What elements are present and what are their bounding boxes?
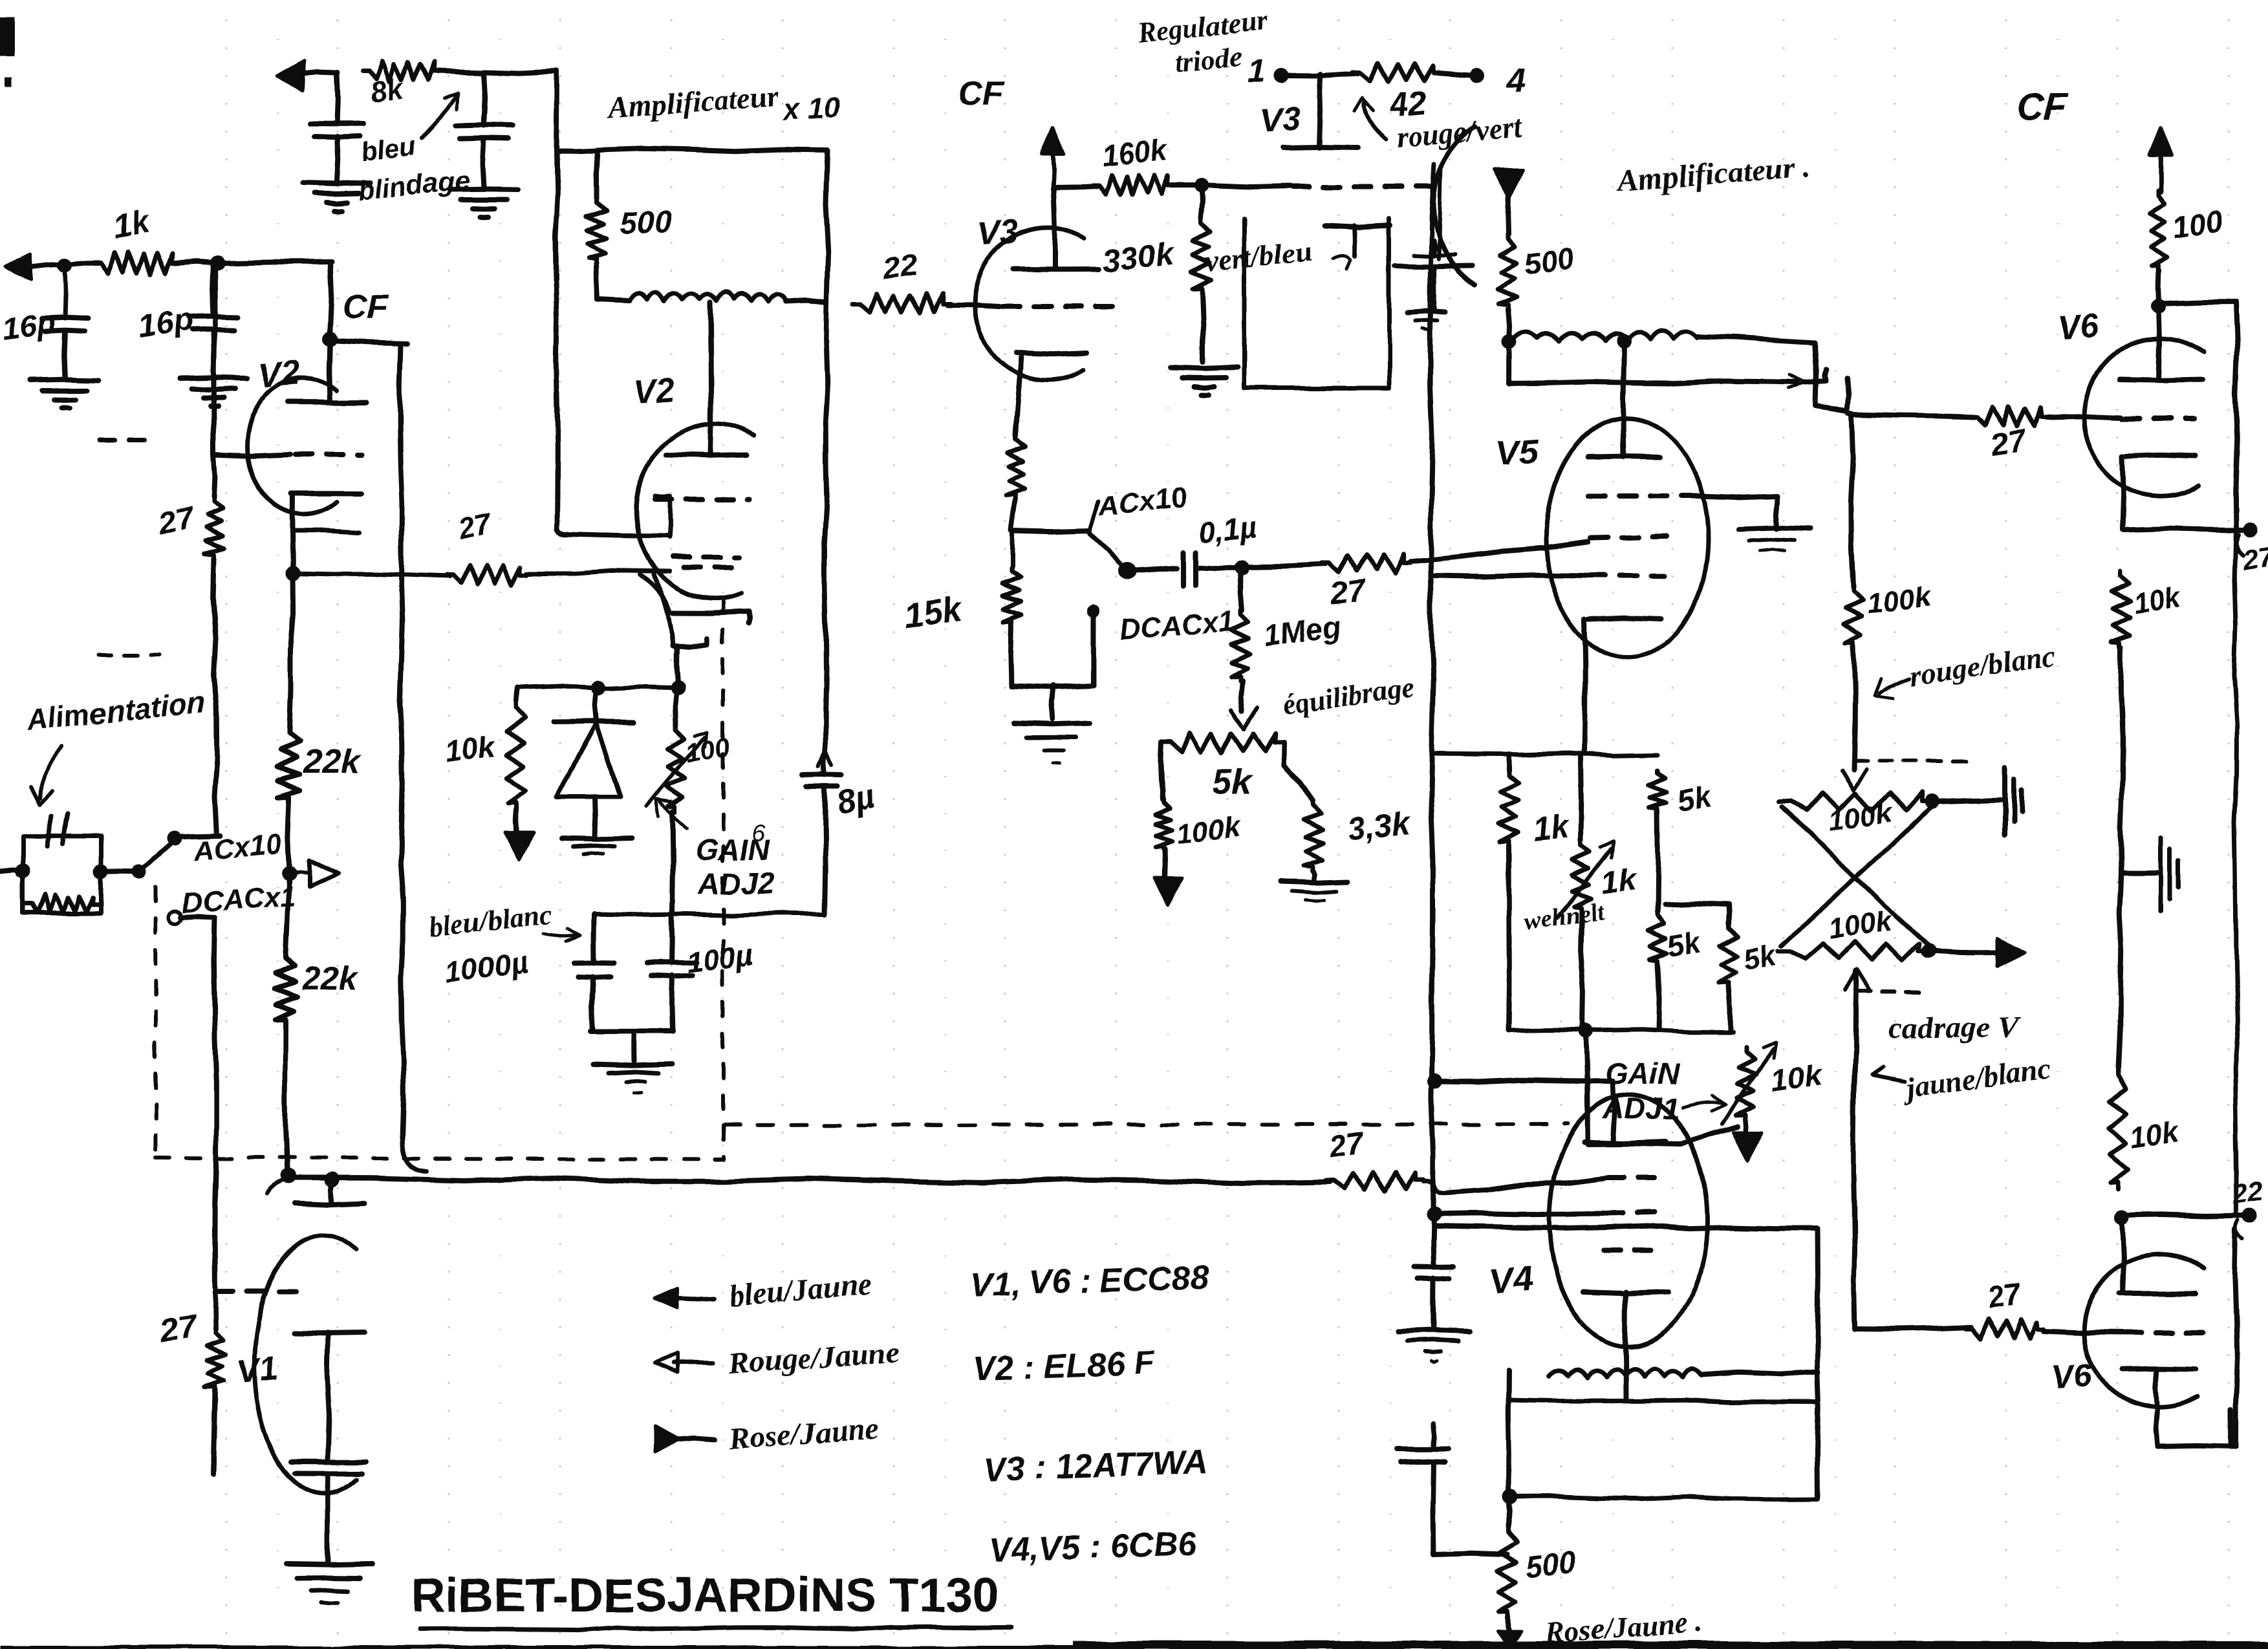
wire CF node to corner (331, 340, 407, 343)
center supply bus (vertical) (1430, 165, 1441, 1214)
resistor 27 (V1 grid column) (205, 1291, 225, 1474)
tube V4 plate (1584, 1142, 1666, 1143)
label 16p (input cap) (0, 305, 58, 347)
wire output down (V6b cathode return) (2235, 1229, 2238, 1446)
label CF (V2a cathode follower) (343, 288, 389, 326)
capacitor (V4 left upper) (1414, 1216, 1453, 1328)
ground stub (mid right) (2121, 838, 2178, 911)
svg-text:V3 : 12AT7WA: V3 : 12AT7WA (983, 1443, 1208, 1489)
wire top to pentode box (484, 71, 598, 151)
cap bottom bar + ground (590, 1031, 673, 1094)
resistor 100k (equilibrage left) (1155, 800, 1172, 849)
node 1Meg (1236, 560, 1250, 574)
tube V3a plate (1013, 189, 1099, 269)
wire coil to corner (1697, 336, 1815, 342)
tube V1 plate (294, 1173, 365, 1204)
tube V6a plate (2120, 306, 2203, 380)
dashed link (cadrage) (1855, 761, 1967, 992)
label 5k b (1665, 924, 1705, 964)
resistor 500 (box left side) (587, 199, 607, 263)
network top rail (1434, 753, 1658, 757)
svg-text:1: 1 (1248, 54, 1266, 89)
tube V6b plate lead (2119, 1220, 2196, 1294)
bottom rail (V4) (1510, 1497, 1818, 1500)
svg-text:V4: V4 (1489, 1260, 1534, 1301)
potentiometer 10k (GAIN ADJ1) (1722, 1042, 1776, 1124)
label 500 (V4) (1524, 1544, 1578, 1584)
tube V2 cathode hook upper (640, 574, 750, 623)
capacitor 8u column (803, 302, 841, 914)
wire J1 to R 1k (65, 264, 98, 265)
wire V2a cathode column down (22k column) (289, 573, 294, 729)
tube V5 grid2 dashes (1588, 493, 1699, 499)
bottom bus (long horizontal) (288, 1178, 1330, 1183)
wire attenuator to switch pivot (101, 865, 146, 879)
wire pot left to 100k (1160, 742, 1162, 800)
wire box-left vertical down (556, 151, 669, 536)
ground (3.3k) (1280, 870, 1348, 901)
potentiometer 5k (equilibrage) (1161, 733, 1284, 753)
tube V6b envelope (2084, 1255, 2204, 1407)
svg-text:100: 100 (2170, 204, 2225, 244)
capacitor C 16p (input) (41, 266, 88, 379)
scan mark top-left (0, 17, 14, 87)
svg-text:V3: V3 (1259, 100, 1303, 140)
arrow down (10k to -) (505, 808, 534, 860)
wire grid2 to ground (1699, 496, 1809, 551)
wire V4 cathode rail (1509, 1400, 1818, 1403)
label 0,1u (1197, 510, 1258, 550)
node V4 left (1503, 1490, 1517, 1504)
svg-text:CF: CF (343, 288, 389, 326)
terminal 1 (1248, 54, 1288, 89)
label DCACx1 (left switch) (180, 880, 296, 920)
label 1k (1531, 808, 1571, 848)
capacitor C 16p (after 1k) (189, 263, 238, 377)
resistor 160k (1092, 175, 1174, 195)
tube V2 grid1 dashes (654, 497, 750, 502)
svg-text:V6: V6 (2049, 1357, 2094, 1397)
svg-text:V6: V6 (2056, 307, 2101, 347)
label 27 (upper left) (155, 501, 197, 541)
tube V5 cathode (1584, 618, 1661, 753)
tube V5 envelope (1546, 418, 1708, 658)
label vert/bleu (1204, 234, 1350, 278)
label cadrage V (1888, 1011, 2021, 1045)
label 100u (684, 937, 755, 980)
wire V4 feed (y=1672) (1434, 1080, 1615, 1142)
wire jog to V6a grid line (1816, 378, 1852, 414)
svg-text:6: 6 (752, 819, 766, 846)
ground (V4 left) (1398, 1330, 1470, 1362)
wire to V6b grid from cadrage (1855, 1327, 1971, 1330)
wire down to CF plate node (330, 262, 331, 338)
wire V4 right column (1817, 1229, 1819, 1497)
label ACx10 (mid switch) (1096, 482, 1189, 523)
network bottom rail (1509, 1029, 1733, 1032)
scan mark bottom edge (0, 1641, 2268, 1649)
wire 42 to terminal 4 (1438, 68, 1484, 82)
pentode anode-load box (500) (596, 149, 828, 302)
capacitor 100u (647, 914, 697, 1031)
svg-text:27: 27 (157, 1308, 200, 1349)
label 100k (cadrage bottom) (1827, 905, 1895, 945)
arrow up (V6a B+) (2150, 128, 2172, 193)
label 160k (1100, 133, 1171, 173)
resistor 3.3k (1303, 800, 1323, 870)
label V4 (1489, 1260, 1534, 1301)
label V2 (pentode) (632, 371, 676, 412)
dashed box bottom (156, 1158, 723, 1159)
svg-text:10k: 10k (1768, 1057, 1826, 1099)
label 100k (cadrage top) (1827, 797, 1895, 837)
label 500 (V5) (1522, 241, 1577, 281)
node D (attenuator tap) (282, 866, 296, 880)
arrow down (ADJ1 to -) (1734, 1119, 1762, 1159)
arrow ground (rose/jaune) (1498, 1617, 1521, 1648)
resistor 27 (V6a grid) (1853, 407, 2047, 427)
svg-text:V4,V5 : 6CB6: V4,V5 : 6CB6 (988, 1525, 1198, 1569)
label bleu/blanc (427, 898, 581, 943)
svg-text:27: 27 (1987, 424, 2029, 463)
arrow up (cadrage wiper) (1844, 970, 1869, 1329)
resistor 42 (1353, 63, 1441, 82)
node (8k left cap) (337, 72, 338, 123)
node V6b plate (2115, 1211, 2130, 1225)
label V2 (cathode follower) (256, 353, 302, 396)
label 27 (output top) (2240, 541, 2268, 575)
label 1Meg (1262, 609, 1343, 653)
dashed stub (alim) (98, 653, 159, 657)
dashes (left of V2a grid) (99, 438, 150, 442)
svg-text:CF: CF (2016, 86, 2068, 128)
tube V1 cathode (294, 1333, 365, 1460)
wire + arrow right (cadrage out) (1928, 938, 2024, 966)
wire cathode to bias rail (676, 648, 678, 687)
resistor 5k b (1648, 912, 1667, 964)
tube V1 envelope (254, 1235, 356, 1494)
svg-text:1k: 1k (1531, 808, 1571, 848)
label 27 (bus) (1326, 1126, 1368, 1165)
ground (8k left) (303, 183, 371, 211)
arrow down (1Meg to pot wiper) (1231, 708, 1257, 729)
node bus-left (266, 1169, 296, 1193)
coil resistor (V5 plate) (1513, 331, 1697, 341)
resistor 1Meg (1231, 572, 1250, 711)
label 16p (2nd) (136, 301, 196, 344)
node network out (1579, 1024, 1593, 1038)
contact node (mid switch) (1119, 561, 1136, 578)
svg-text:8µ: 8µ (833, 778, 878, 823)
svg-text:22: 22 (880, 248, 920, 286)
resistor 500 (V5 plate) (1498, 234, 1517, 309)
wire node to output 2 bottom (2122, 1215, 2245, 1216)
label V6 (bottom) (2049, 1357, 2094, 1397)
wire V1 cathode cap down (325, 1473, 330, 1562)
node cadrage bottom right (1921, 943, 1936, 958)
arrow (42 pointer) (1354, 98, 1385, 140)
resistor 27 (to V5) (1322, 554, 1410, 573)
tube V2 plate (666, 302, 747, 455)
label V2 : EL86F (972, 1344, 1155, 1388)
node cadrage top right (1925, 795, 1939, 809)
label V5 (1495, 431, 1541, 473)
wire 22 to V3a grid (947, 305, 999, 307)
label ACx10 (left switch) (191, 828, 283, 868)
wire 27 to V5 grid (1410, 542, 1588, 561)
label Rose/Jaune (727, 1411, 880, 1456)
wire terminal1 to 42 (1281, 74, 1358, 76)
svg-text:160k: 160k (1100, 133, 1171, 173)
svg-text:V2 : EL86 F: V2 : EL86 F (972, 1344, 1155, 1388)
node coil mid (1617, 334, 1631, 348)
label Regulateur (1135, 4, 1270, 49)
node V4 grid2 (1427, 1207, 1441, 1222)
wire V4 bottom corner (1434, 1553, 1507, 1555)
wire 500 to node (1508, 309, 1509, 341)
arrow (blindage pointer) (422, 93, 459, 138)
label 100 (pot) (682, 731, 732, 768)
resistor 15k (box left) (1002, 568, 1022, 623)
tube V2a envelope (247, 378, 336, 514)
label Amplificateur x 10 (605, 80, 842, 127)
label 100 (V6a) (2170, 204, 2225, 244)
arrow (ADJ1 pointer) (1681, 1095, 1725, 1111)
node V4 feed (1427, 1074, 1442, 1088)
label 100k (equilibrage) (1175, 810, 1244, 850)
tube V2 grid bracket (654, 497, 669, 537)
wire R1k to node J2 (175, 262, 217, 263)
label triode (1173, 40, 1244, 79)
arrow D (open, right) (289, 860, 338, 887)
label 5k a (1674, 779, 1714, 818)
wire cadrage top to cap (1932, 800, 2003, 802)
wire node right + down (2159, 301, 2238, 529)
wire 5k a to 5k b (1655, 812, 1661, 912)
svg-text:5k: 5k (1213, 763, 1253, 802)
ground (under 2nd 16p) (180, 378, 247, 407)
node V5 plate supply (1502, 335, 1516, 349)
arrow down (100k to -) (1155, 849, 1182, 905)
wire grid2 node (1434, 1212, 1662, 1214)
label Rose/Jaune (V4) (1543, 1605, 1704, 1649)
label V6 (top) (2056, 307, 2101, 347)
wire to 27 (V5 grid) (1243, 564, 1326, 566)
legend arrow rouge/jaune (655, 1353, 713, 1373)
legend arrow rose/jaune (655, 1426, 715, 1452)
diode (thermistor) (554, 687, 634, 797)
tube V4 cathode (1583, 1292, 1669, 1398)
wire 22k lower to bus (286, 1024, 288, 1175)
node attenuator out (94, 865, 108, 879)
capacitor 1000u (575, 914, 614, 1031)
label 10k (V6b) (2128, 1116, 2181, 1154)
ground (diode) (561, 837, 632, 854)
capacitor (V4 left lower) (1397, 1423, 1449, 1555)
label jaune/blanc (1872, 1051, 2053, 1105)
wire network to gain pot (1586, 1032, 1738, 1145)
tube V5 grid3 line (1434, 575, 1664, 576)
tube V3a grid dashes (1002, 304, 1127, 309)
wire 27 to grid (2047, 416, 2121, 418)
resistor 27 (bus) (1326, 1172, 1423, 1190)
tube V4 grid3 dashes (1604, 1247, 1662, 1253)
connector to 5k c (1665, 903, 1729, 905)
node output 2 (bottom) (2236, 1209, 2258, 1239)
wire hook from V2a plate line down to bus (400, 345, 427, 1172)
node V6a plate (2152, 299, 2166, 313)
wire V1 grid dashes (217, 1289, 309, 1294)
tube V6b cathode bracket (2156, 1410, 2236, 1446)
wire cap to ground (337, 136, 338, 181)
capacitor (8k right) (455, 72, 512, 188)
svg-text:V2: V2 (256, 353, 302, 396)
decoupling rail (y=1413) (594, 913, 825, 915)
capacitor (V3b cathode) (1395, 241, 1472, 310)
terminal arrow (top-left, B+) (277, 61, 338, 91)
wire 8k to cap2 (437, 71, 485, 72)
label V4,V5 : 6CB6 (988, 1525, 1198, 1569)
tube V6b cathode (2122, 1368, 2196, 1410)
wire 10k column down (2119, 873, 2121, 1067)
label GAIN ADJ1 (1602, 1057, 1680, 1125)
ground (under switch box) (1014, 686, 1090, 763)
svg-text:3,3k: 3,3k (1345, 805, 1413, 848)
arrow (alimentation pointer) (31, 747, 61, 805)
capacitor 0.1u (1183, 552, 1196, 586)
label bleu (blindage) (359, 129, 418, 167)
svg-text:500: 500 (1524, 1544, 1578, 1584)
svg-text:27: 27 (1985, 1276, 2024, 1314)
wire left column (V4) (1508, 1371, 1509, 1497)
tube V5 grid1 dashes (1591, 536, 1667, 538)
label blindage (357, 164, 471, 206)
resistor 1k (94, 252, 178, 275)
tube V2 cathode hook lower (654, 574, 707, 647)
label CF (V3 stage) (958, 75, 1004, 113)
label 42 (1387, 83, 1429, 124)
label V3 : 12AT7WA (983, 1443, 1208, 1489)
box (V3b regulator outline) (1244, 219, 1389, 388)
wire DC contact down (to V1 grid column) (214, 918, 217, 1288)
svg-text:500: 500 (620, 206, 671, 240)
tube V3b envelope (1434, 127, 1475, 285)
wire 5k b down (1658, 964, 1659, 1030)
wire V6b grid (2044, 1331, 2204, 1333)
wire pot right to 3.3k (1284, 742, 1313, 800)
tube V6a grid dashes (2122, 416, 2194, 422)
label 10k (V6a) (2131, 581, 2184, 620)
wire 22k to node D (288, 802, 289, 872)
tube V4 envelope (1550, 1095, 1707, 1347)
label 27 (lower left) (157, 1308, 200, 1349)
resistor (V3a cathode) (1006, 435, 1026, 530)
label GAIN ADJ2 (695, 819, 775, 900)
svg-text:4: 4 (1506, 62, 1526, 100)
node CF plate (323, 332, 337, 346)
resistor 22k (lower) (275, 874, 297, 1024)
tube V3a cathode (1015, 352, 1088, 435)
label bleu/Jaune (727, 1267, 872, 1313)
label Amplificateur (right) (1614, 150, 1811, 198)
resistor 8k (362, 61, 440, 82)
contact DCACx1 (169, 911, 215, 924)
tube V3b cathode (1326, 225, 1390, 256)
capacitor (V1 cathode) (290, 1461, 365, 1473)
label 15k (901, 590, 966, 636)
svg-text:16p: 16p (136, 301, 196, 344)
ground (V3b cathode) (1407, 311, 1445, 330)
svg-text:ADJ2: ADJ2 (698, 867, 775, 900)
tube V5 plate (1588, 343, 1659, 457)
arrow (ADJ2 pointer) (656, 799, 687, 828)
svg-text:10k: 10k (442, 729, 498, 770)
node V2a cathode out (286, 566, 300, 580)
label V1,V6 : ECC88 (969, 1258, 1209, 1304)
svg-text:15k: 15k (901, 590, 966, 636)
label 8k (367, 70, 407, 110)
label 1k (pot) (1600, 863, 1639, 901)
svg-text:V2: V2 (632, 371, 676, 412)
svg-text:V1: V1 (235, 1350, 279, 1392)
resistor 330k (1191, 186, 1211, 362)
svg-text:CF: CF (958, 75, 1004, 113)
capacitor (8k left) (310, 123, 364, 136)
dashed box right (721, 598, 725, 1159)
svg-text:V5: V5 (1495, 431, 1541, 473)
svg-text:22k: 22k (303, 743, 362, 781)
ground (8k right) (450, 189, 517, 217)
svg-text:x 10: x 10 (780, 89, 842, 127)
label 10k (ADJ1) (1768, 1057, 1826, 1099)
label Alimentation (24, 685, 207, 737)
svg-text:cadrage V: cadrage V (1888, 1011, 2021, 1045)
resistor 100k (rouge/blanc column) (1844, 414, 1864, 770)
svg-text:330k: 330k (1100, 235, 1177, 279)
wire contact to 0.1u cap (1135, 568, 1177, 569)
tube V3b grid dashes (1292, 184, 1435, 189)
node 330k top (1171, 178, 1290, 193)
label rouge/vert (1394, 110, 1523, 154)
svg-text:GAiN: GAiN (1605, 1057, 1680, 1090)
label 3,3k (1345, 805, 1413, 848)
resistor 5k a (1648, 771, 1667, 812)
wire cathode-rail with 27 (293, 506, 670, 585)
terminal arrow down (B+ V5) (1494, 169, 1524, 234)
svg-text:1k: 1k (1600, 863, 1639, 901)
attenuator box (cap + resistor) (23, 814, 101, 913)
bus to V4 grid (1447, 1178, 1604, 1193)
output wire (V6a) (2123, 528, 2247, 530)
svg-text:0,1µ: 0,1µ (1197, 510, 1258, 550)
resistor 5k c (1719, 905, 1738, 1031)
label 1000u (442, 944, 530, 989)
arrow (rouge/blanc pointer) (1874, 678, 1909, 698)
svg-text:27: 27 (1328, 573, 1369, 612)
resistor 10k (V6b plate) (2108, 1067, 2128, 1189)
resistor 10k (V6a cathode) (2111, 570, 2130, 872)
svg-text:10k: 10k (2128, 1116, 2181, 1154)
svg-text:V3: V3 (976, 213, 1020, 253)
label 1k (110, 203, 153, 245)
potentiometer 100k (cadrage top) (1778, 792, 1934, 812)
contact DCACx1 (mid switch) (1088, 605, 1099, 616)
label 5k (equilibrage) (1213, 763, 1253, 802)
title RIBET-DESJARDINS T130 (411, 1568, 1012, 1630)
ground (330k) (1171, 367, 1238, 395)
label 8u (833, 778, 878, 823)
wire pot100 down (673, 812, 673, 913)
